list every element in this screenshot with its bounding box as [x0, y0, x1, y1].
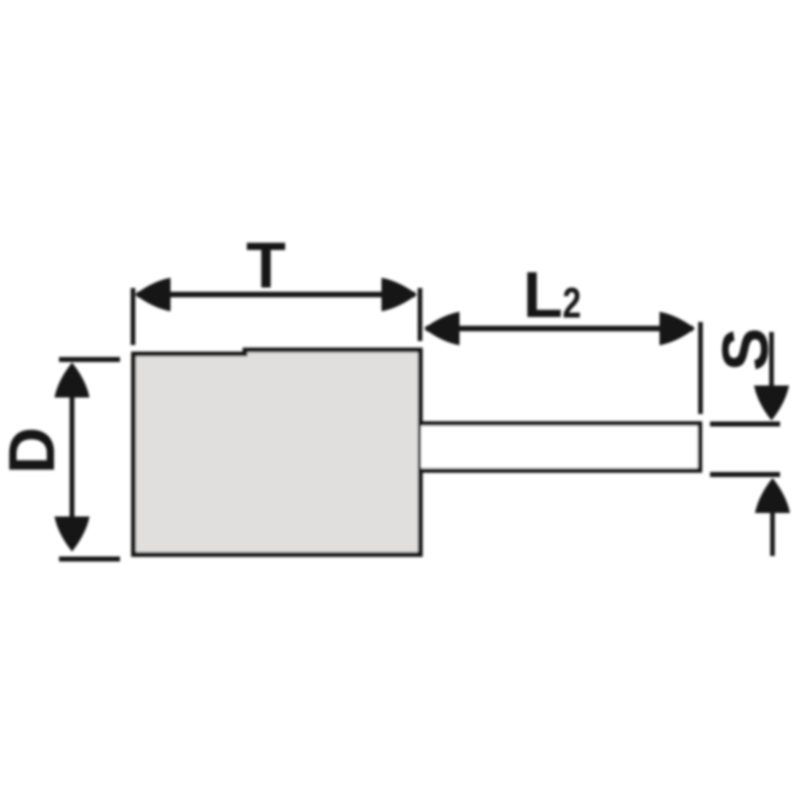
dimension T: dimension line [137, 292, 415, 298]
shank (spindle) [421, 424, 700, 471]
dimension T: left arrowhead [135, 278, 171, 312]
dimension D: top arrowhead [55, 363, 90, 398]
dimension T: right arrowhead [382, 278, 418, 312]
dimension S: upper leader line [769, 332, 774, 392]
svg-text:L: L [523, 258, 563, 331]
dimension S: lower leader line [770, 508, 775, 556]
dimension D: bottom extension tick [59, 557, 120, 562]
dimension L2: left arrowhead [424, 312, 460, 346]
dimension S: top extension tick [710, 422, 780, 427]
dimension T: left extension line [131, 288, 136, 345]
dimension L2: right extension line [698, 322, 703, 414]
svg-text:S: S [709, 328, 782, 371]
dimension L2: right arrowhead [660, 312, 696, 346]
dimension D: top extension tick [59, 357, 120, 362]
dimension L2: dimension line [426, 326, 693, 332]
dimension D: dimension line [70, 366, 75, 547]
dimension S: lower arrowhead (points up) [755, 478, 790, 513]
dimension S: bottom extension tick [710, 472, 780, 477]
svg-text:2: 2 [563, 280, 582, 328]
svg-text:D: D [0, 427, 68, 474]
svg-text:T: T [246, 229, 286, 302]
dimension S: upper arrowhead (points down) [754, 386, 789, 421]
dimension D: bottom arrowhead [55, 517, 90, 552]
dimension T / L2: shared extension line [418, 288, 423, 341]
wheel body (grinding wheel, gray fill, stepped top edge) [134, 350, 421, 555]
